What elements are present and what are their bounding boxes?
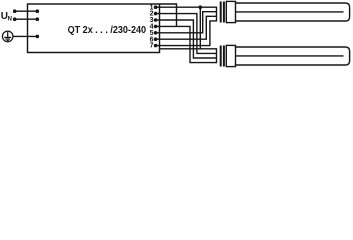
svg-text:QT 2x . . . /230-240: QT 2x . . . /230-240 <box>68 24 146 36</box>
wire terminal 2 down to lamp LA2 pin 2 <box>156 14 217 54</box>
node L input dot left <box>13 9 17 13</box>
wire N input <box>15 18 38 20</box>
ground (protective earth symbol in circle) <box>2 31 13 42</box>
wire series link from junction down to bottom feed wire <box>199 7 201 49</box>
svg-text:N: N <box>8 17 12 23</box>
lamp LA1 tube <box>236 3 350 21</box>
terminal 3 dot <box>154 18 158 22</box>
lamp LA1 tube fold line <box>236 11 344 13</box>
wire terminal 5 up to lamp LA1 pin 2 <box>156 12 217 33</box>
wire terminal 7 up to lamp LA1 pin 4 <box>156 21 217 46</box>
wire PE <box>13 35 38 37</box>
ballast box QT 2x.../230-240 <box>28 4 160 53</box>
terminal 6 dot <box>154 37 158 41</box>
lamp LA1 pin plate <box>216 7 218 22</box>
terminal 5 dot <box>154 31 158 35</box>
lamp LA1 base block <box>226 1 235 22</box>
node junction dot on terminal 1 wire <box>199 5 203 9</box>
terminal 7 dot <box>154 44 158 48</box>
terminal 4 dot <box>154 25 158 29</box>
node L input dot right <box>36 9 40 13</box>
node N input dot left <box>13 17 17 21</box>
lamp LA2 tube <box>236 47 350 65</box>
node N input dot right <box>36 17 40 21</box>
lamp LA2 base bar 2 <box>223 46 225 67</box>
lamp LA1 base bar 2 <box>223 2 225 23</box>
lamp LA2 base bar 1 <box>220 46 222 67</box>
svg-text:7: 7 <box>150 43 154 50</box>
wire terminal 4 down to lamp LA2 pin 4 <box>156 26 217 62</box>
wire bottom feed from box to lamp LA2 pin 1 <box>160 48 217 50</box>
wire terminal 6 up to lamp LA1 pin 3 <box>156 16 217 39</box>
lamp LA1 base bar 1 <box>220 2 222 23</box>
wire terminal 3 down to lamp LA2 pin 3 <box>156 20 217 58</box>
lamp LA2 pin plate <box>216 48 218 63</box>
terminal 2 dot <box>154 12 158 16</box>
terminal 1 dot <box>154 5 158 9</box>
wire L input <box>15 10 38 12</box>
wire terminal 1 to lamp LA1 pin 1 <box>156 6 217 8</box>
lamp LA2 tube fold line <box>236 55 344 57</box>
lamp LA2 base block <box>226 45 235 66</box>
wire corner feed (box top edge) to terminal 4 row <box>160 4 177 26</box>
node PE dot <box>36 35 40 39</box>
